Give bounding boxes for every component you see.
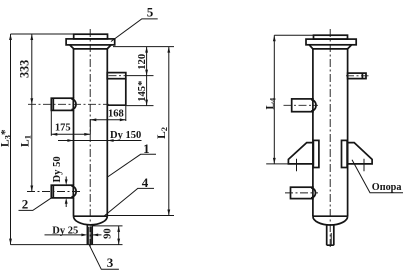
right vessel top cover plate <box>314 35 348 39</box>
L4 dimension line <box>273 35 275 164</box>
upper left nozzle weld cap <box>71 99 76 110</box>
90 top extension line <box>92 225 122 227</box>
right vessel bottom tangent line <box>313 215 348 217</box>
175 dimension line <box>51 133 90 135</box>
support bracket left body <box>288 143 313 164</box>
L2 dimension line <box>168 47 170 216</box>
svg-text:3: 3 <box>107 255 114 270</box>
Dy25 arrow right <box>92 234 101 236</box>
dimension line L3* <box>10 34 12 245</box>
175-168 jog <box>89 120 91 135</box>
right stub nozzle flange band <box>107 73 126 79</box>
90 dimension line <box>118 226 120 245</box>
Dy150 dimension line <box>58 140 142 142</box>
right vessel top flange ring <box>306 39 356 45</box>
Dy50 nozzle flange face <box>52 185 54 198</box>
svg-text:90: 90 <box>102 228 113 239</box>
svg-text:333: 333 <box>17 60 31 78</box>
Dy50 lower arrow <box>65 203 67 207</box>
svg-text:1: 1 <box>143 141 150 156</box>
120-145 bottom extension line <box>126 105 154 107</box>
svg-text:L1: L1 <box>19 135 32 147</box>
upper left nozzle centerline <box>28 103 109 105</box>
upper left nozzle flange face <box>52 98 54 110</box>
L2 bottom extension line <box>107 215 174 217</box>
right vessel upper left nozzle <box>292 99 313 112</box>
left vessel shell wall left <box>73 49 75 216</box>
dimension line 120 / 145 <box>146 47 148 106</box>
long bottom extension line <box>11 244 123 246</box>
top extension line <box>11 33 74 35</box>
upper left nozzle <box>51 98 73 110</box>
120-145 middle extension line <box>127 75 154 77</box>
left vessel centerline <box>89 29 91 248</box>
dimension line 333 / L1 <box>31 34 33 192</box>
L4 top extension line <box>274 34 313 36</box>
left vessel shell wall right <box>106 49 108 216</box>
right vessel lower left nozzle <box>291 187 313 198</box>
support bracket left bolt mark <box>296 159 298 172</box>
svg-text:168: 168 <box>108 109 124 120</box>
168 dimension line <box>90 119 126 121</box>
svg-text:L2: L2 <box>156 127 169 139</box>
Dy50 nozzle weld cap <box>71 186 76 197</box>
svg-text:Dy 50: Dy 50 <box>52 156 63 182</box>
Dy50 nozzle centerline <box>27 191 80 193</box>
svg-text:2: 2 <box>22 196 29 211</box>
left vessel bottom tangent line <box>74 215 108 217</box>
support bracket right bolt mark <box>363 159 365 172</box>
120-145 top extension line / L2 top ext <box>113 46 174 48</box>
right vessel centerline <box>329 29 331 248</box>
svg-text:L4: L4 <box>265 97 278 110</box>
left vessel top cover plate <box>74 34 108 39</box>
svg-text:175: 175 <box>55 122 71 133</box>
Dy50 nozzle 2 <box>51 185 73 198</box>
right stub flange centerline <box>109 75 127 77</box>
Dy50 upper arrow <box>65 177 67 181</box>
168 extension line <box>125 105 127 121</box>
right vessel shell wall left <box>312 49 314 216</box>
svg-text:L3*: L3* <box>0 129 13 147</box>
right vessel shell wall right <box>347 49 349 216</box>
left vessel top flange ring 5 <box>66 39 115 45</box>
right vessel dished bottom head <box>313 216 348 225</box>
Dy25 arrow left <box>45 234 83 236</box>
support bracket right plate <box>342 140 348 167</box>
left vessel dished bottom head <box>74 216 108 225</box>
right vessel flange hub taper <box>309 45 351 49</box>
right vessel upper right nozzle <box>348 73 366 79</box>
175 extension line <box>50 110 52 135</box>
right stub nozzle body <box>107 79 126 106</box>
svg-text:120: 120 <box>137 54 148 70</box>
svg-text:Dy 150: Dy 150 <box>110 130 141 141</box>
support bracket right body <box>348 143 373 164</box>
svg-text:Опора: Опора <box>372 182 402 193</box>
right vessel bottom nozzle <box>327 225 334 246</box>
Опора leader and underline <box>352 160 403 193</box>
support bracket left plate <box>313 140 319 167</box>
left vessel flange hub taper <box>70 45 111 49</box>
svg-text:145*: 145* <box>137 81 148 102</box>
bottom nozzle 3 (Dy25) <box>87 224 92 244</box>
svg-text:5: 5 <box>147 5 154 20</box>
L4 bottom extension line <box>266 163 313 165</box>
